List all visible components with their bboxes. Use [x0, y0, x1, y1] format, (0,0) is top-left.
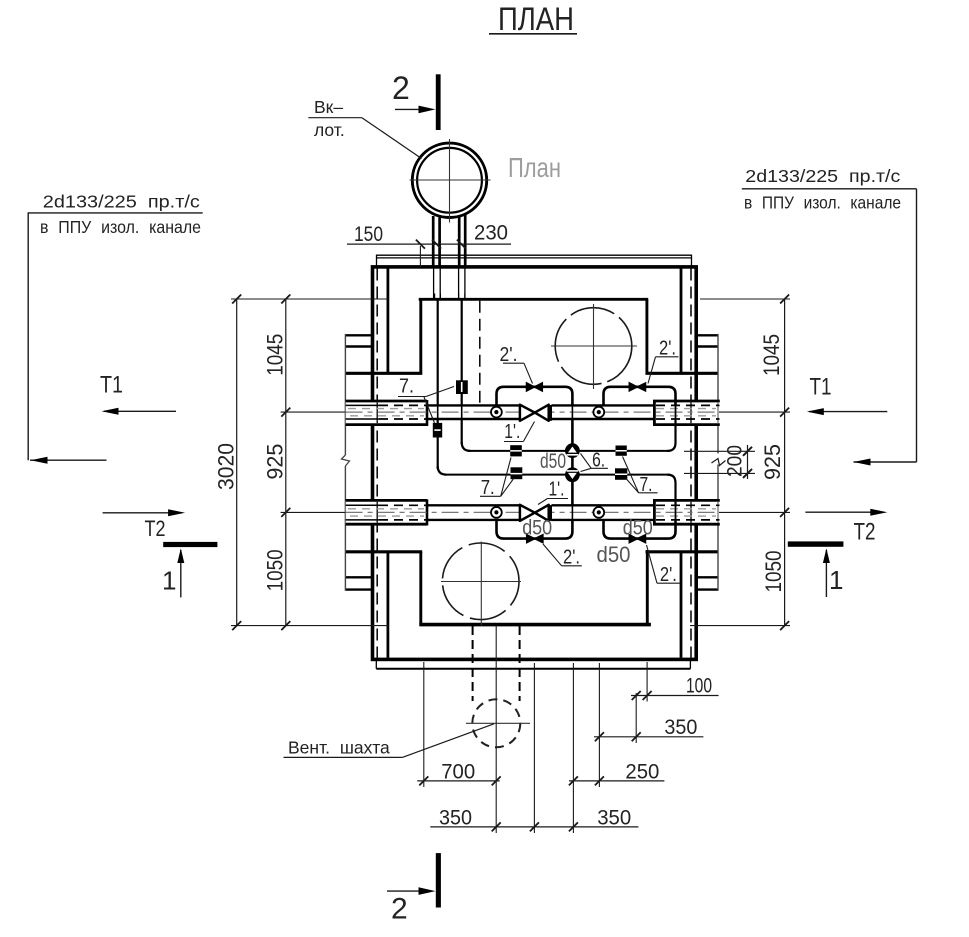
svg-text:2'.: 2'.: [563, 547, 580, 569]
title ПЛАН: [489, 1, 577, 37]
channel cut edge right with break: [717, 334, 719, 591]
svg-text:d50: d50: [623, 517, 653, 540]
T2 pipe walls: [346, 505, 720, 520]
svg-text:2'.: 2'.: [660, 564, 677, 586]
flange box upper right: [616, 446, 627, 456]
T1 sleeve left (white covers walls): [345, 400, 427, 426]
svg-text:T1: T1: [100, 372, 123, 399]
label 2' top-left: [500, 344, 533, 384]
hatch circle: [410, 139, 491, 223]
T2 sleeve right (white covers walls): [653, 499, 720, 525]
label Вк-лот: [308, 97, 421, 159]
hatch pipe pair upper (thick): [433, 215, 465, 268]
svg-text:925: 925: [263, 444, 288, 480]
svg-text:2: 2: [392, 70, 410, 106]
center drop pipe: [571, 420, 574, 505]
svg-text:в ППУ изол. канале: в ППУ изол. канале: [744, 193, 901, 213]
note block right: [742, 166, 917, 466]
section mark 1 left: [162, 542, 217, 598]
T2 insulation dashes in sleeves: [348, 509, 716, 516]
dim 350 upper: [594, 716, 703, 741]
T1 bypass valve inner: [527, 383, 543, 391]
T1 riser circle right: [593, 407, 604, 418]
T2 sleeve left (white covers walls): [345, 499, 427, 525]
drain line upper: [468, 450, 670, 452]
T1 bypass valve outer: [629, 383, 645, 391]
svg-text:700: 700: [441, 761, 475, 784]
T2 bypass loop outer: [604, 521, 676, 539]
T2 arrow left (points right): [103, 509, 186, 516]
svg-text:d50: d50: [522, 517, 552, 540]
drain upper right corner up: [667, 420, 675, 451]
svg-text:Вк–: Вк–: [314, 97, 343, 117]
T1 main valve: [520, 405, 552, 421]
channel wall lines below T2 left: [345, 576, 372, 578]
slab top edge thin double line: [377, 255, 692, 266]
svg-text:лот.: лот.: [314, 120, 345, 140]
svg-text:1050: 1050: [761, 551, 786, 593]
svg-text:150: 150: [354, 223, 383, 246]
air valve symbol upper: [565, 443, 580, 458]
svg-text:2d133/225 пр.т/с: 2d133/225 пр.т/с: [745, 166, 900, 186]
T1 pipe walls: [346, 405, 720, 419]
label 7 top-left: [398, 376, 454, 424]
svg-text:200: 200: [724, 445, 747, 477]
note block left: [28, 192, 203, 464]
dim 3020: [214, 295, 242, 631]
drop pipe A inside chamber: [437, 299, 439, 470]
svg-text:2'.: 2'.: [659, 338, 676, 360]
svg-text:230: 230: [474, 222, 508, 245]
svg-text:Вент. шахта: Вент. шахта: [288, 738, 390, 758]
T2 riser circle left: [491, 507, 502, 518]
T1 arrow left: [102, 408, 177, 415]
inner room wall right top segment: [645, 299, 648, 374]
hidden riser line dashed in top room: [479, 301, 481, 404]
pipe crossing segments (legs through pipes): [438, 405, 676, 519]
hidden wall line dashed left: [376, 269, 378, 658]
svg-text:T2: T2: [854, 519, 876, 546]
drain line lower: [444, 474, 670, 476]
jog wall line T2 right: [646, 550, 719, 553]
wall outer rectangle: [373, 267, 697, 660]
T2 riser circle right: [593, 507, 604, 518]
T1 riser circle left: [491, 407, 502, 418]
vent shaft circle: [466, 699, 530, 747]
T2 bypass loop inner: [497, 521, 573, 539]
svg-text:7.: 7.: [399, 376, 414, 398]
T2 bypass valve outer: [629, 535, 645, 543]
drain valve symbol lower: [565, 467, 580, 482]
vent shaft hidden walls: [473, 626, 520, 701]
dim chain 1045/925/1050 left: [262, 295, 290, 631]
label 7 mid-left: [480, 458, 514, 500]
label 7 mid-right: [623, 457, 658, 496]
svg-text:925: 925: [760, 444, 785, 480]
svg-text:2d133/225 пр.т/с: 2d133/225 пр.т/с: [43, 192, 200, 212]
label 1' bottom: [538, 479, 568, 505]
svg-text:d50: d50: [540, 450, 566, 473]
svg-text:d50: d50: [597, 542, 631, 567]
drop pipe B corner to drain: [462, 442, 471, 451]
T1 centerline: [346, 411, 720, 413]
label Вент. шахта: [284, 724, 495, 758]
manhole circle bottom left: [441, 542, 521, 626]
svg-text:100: 100: [686, 675, 712, 698]
svg-text:ПЛАН: ПЛАН: [498, 1, 574, 37]
svg-text:1: 1: [829, 565, 843, 595]
drop pipe B inside chamber: [461, 299, 463, 445]
svg-text:1045: 1045: [263, 334, 288, 376]
inner room bottom wall: [419, 623, 651, 627]
dim 700 / 250: [417, 761, 664, 786]
extension lines right: [690, 299, 790, 626]
label 6: [581, 450, 608, 472]
slab bottom edge thin line: [376, 661, 690, 669]
section mark 2 top: [392, 70, 441, 130]
inner room top wall: [419, 298, 649, 301]
label 2' bottom-right: [647, 545, 681, 586]
instrument box on pipe A: [433, 423, 442, 438]
T1 insulation dashes in sleeves: [348, 409, 716, 416]
dim 350 / 350 bottom: [430, 807, 638, 832]
drain lower right corner down: [667, 475, 675, 505]
extension lines left: [231, 299, 388, 626]
svg-text:1045: 1045: [759, 334, 784, 376]
svg-text:T2: T2: [145, 516, 166, 541]
svg-text:350: 350: [439, 807, 472, 830]
svg-text:T1: T1: [810, 374, 832, 401]
inner room wall left top segment: [419, 299, 422, 374]
wall inner face left: [386, 269, 389, 658]
dim 200/200: [684, 445, 755, 479]
wall inner face right: [680, 269, 683, 658]
channel wall lines above T1 left: [345, 334, 372, 336]
svg-text:в ППУ изол. канале: в ППУ изол. канале: [40, 217, 201, 237]
dim 100: [631, 675, 719, 701]
svg-text:План: План: [508, 152, 561, 183]
channel wall lines below T2 right: [698, 576, 718, 578]
svg-text:2: 2: [391, 893, 408, 926]
T2 centerline: [346, 511, 720, 513]
svg-text:2'.: 2'.: [500, 344, 518, 366]
T2 bypass valve inner: [527, 535, 543, 543]
label 2' bottom-left: [543, 544, 582, 569]
inner room wall right bottom segment: [646, 550, 649, 626]
svg-text:3020: 3020: [214, 443, 239, 490]
T1 bypass loop inner: [497, 387, 573, 405]
jog wall line T1 right: [646, 372, 719, 375]
svg-text:1'.: 1'.: [549, 479, 565, 501]
svg-text:250: 250: [625, 761, 659, 784]
svg-text:7.: 7.: [481, 477, 495, 499]
svg-text:350: 350: [664, 716, 697, 739]
svg-text:1'.: 1'.: [504, 421, 520, 443]
section mark 2 bottom: [387, 853, 441, 925]
inner room wall left bottom segment: [419, 552, 422, 626]
hidden wall line dashed right: [690, 269, 692, 658]
T2 arrow right (points right): [805, 509, 887, 516]
T1 sleeve right (white covers walls): [653, 400, 720, 426]
manhole circle top right: [551, 304, 637, 389]
label 1' top: [504, 421, 535, 443]
svg-text:1050: 1050: [262, 549, 287, 591]
jog wall line T1 left: [345, 372, 422, 375]
jog wall line T2 left: [345, 550, 422, 553]
svg-text:1: 1: [162, 566, 176, 596]
dim chain 1045/925/1050 right: [759, 295, 789, 631]
T1 arrow right: [807, 408, 888, 415]
extension verticals bottom: [424, 626, 647, 833]
section mark 1 right: [788, 541, 844, 597]
channel wall lines above T1 right: [698, 334, 718, 336]
drop pipe A corner to drain: [438, 466, 447, 475]
flange box upper left: [510, 445, 522, 456]
T2 main valve: [520, 505, 552, 521]
hatch pipe pair through wall band (thin): [434, 268, 465, 299]
flange box lower right: [615, 468, 627, 480]
pipe tick marks at room wall: [435, 294, 465, 301]
instrument box on pipe B: [456, 380, 468, 394]
T1 bypass loop outer: [604, 387, 676, 405]
svg-text:350: 350: [597, 807, 631, 830]
channel cut edge left with break: [342, 334, 350, 591]
flange box lower left: [511, 467, 523, 479]
label 2' top-right: [648, 338, 679, 384]
